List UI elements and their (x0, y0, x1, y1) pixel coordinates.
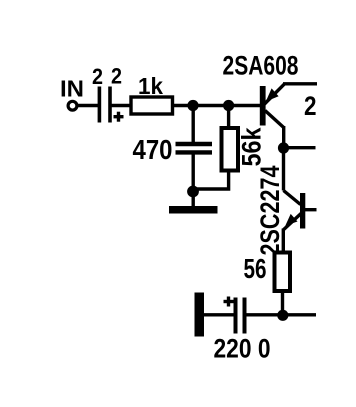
polarity plus C3 (224, 297, 234, 307)
polarity plus C1 (114, 112, 124, 122)
transistor Q2 base stub (305, 208, 317, 211)
svg-text:56k: 56k (236, 127, 266, 167)
wire 56k bottom lead to node C (193, 172, 229, 189)
resistor R3 56 (275, 253, 291, 292)
ground rail bar (195, 293, 205, 337)
svg-text:2: 2 (304, 91, 317, 121)
capacitor C1 22uF (99, 87, 110, 123)
label 56k (rotated) (236, 127, 266, 167)
svg-text:220 0: 220 0 (214, 334, 271, 364)
label 22 (C1 value) (92, 64, 122, 90)
resistor R2 56k (222, 128, 239, 171)
svg-text:56: 56 (244, 253, 267, 284)
transistor Q1 emitter (263, 84, 317, 106)
node D junction (278, 142, 289, 153)
wire C1 to R1 (111, 104, 130, 107)
label 2 (right edge) (304, 91, 317, 121)
svg-text:IN: IN (60, 76, 84, 102)
wire rail to C3 (204, 313, 234, 316)
ground (169, 206, 218, 214)
wire node C to ground (191, 192, 194, 208)
node B junction (223, 100, 234, 111)
input terminal (68, 101, 77, 110)
svg-text:2: 2 (92, 64, 103, 89)
wire C2 to node C (191, 154, 194, 192)
node A junction (187, 100, 198, 111)
wire node E stub right (283, 313, 316, 316)
node C junction (187, 186, 199, 198)
wire 56k top lead (227, 106, 230, 128)
transistor Q2 2SC2274 base bar (300, 193, 305, 229)
wire R1 to Q1 base (174, 104, 261, 107)
svg-text:2SC2274: 2SC2274 (255, 166, 285, 256)
wire C3 to node E (246, 313, 282, 316)
label 2SA608 (223, 51, 299, 81)
transistor Q1 2SA608 base bar (260, 86, 266, 126)
wire node D stub right (284, 146, 316, 149)
svg-text:470: 470 (133, 134, 173, 165)
resistor R1 1k (131, 97, 173, 114)
label 2SC2274 (rotated) (255, 166, 285, 256)
label 1k (138, 73, 163, 99)
label 470 (133, 134, 173, 165)
label 2200 (214, 334, 271, 364)
capacitor C3 2200 (236, 298, 245, 334)
svg-text:2: 2 (111, 64, 122, 89)
wire terminal to C1 (77, 104, 99, 107)
svg-text:2SA608: 2SA608 (223, 51, 299, 81)
wire node D down to Q2 collector (284, 148, 301, 205)
transistor Q1 collector (265, 111, 284, 149)
wire R3 to node E (281, 293, 284, 315)
wire node A down to C2 (191, 106, 194, 144)
node E junction (277, 310, 288, 321)
transistor Q2 emitter (283, 214, 301, 251)
capacitor C2 470 (176, 144, 213, 152)
label IN (60, 76, 84, 102)
label 56 (244, 253, 267, 284)
svg-text:1k: 1k (138, 73, 163, 99)
